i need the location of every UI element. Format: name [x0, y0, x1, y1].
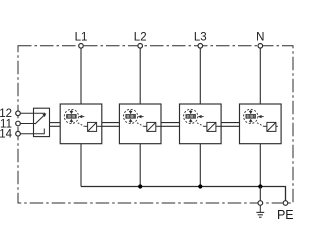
junction L3/PE bus: [198, 184, 202, 188]
trigger flag module F1: [79, 115, 85, 118]
wire module F3 to PE bus: [199, 144, 201, 187]
terminal PE: [283, 201, 288, 206]
trigger flag module F2: [138, 115, 144, 118]
remote signalling changeover contact box: [34, 108, 50, 136]
wire module F4 to PE bus: [259, 144, 261, 187]
terminal N: [258, 44, 263, 49]
varistor (boxed slash) module F4: [264, 122, 278, 131]
ground symbol: [256, 205, 264, 217]
junction L2/PE bus: [138, 184, 142, 188]
svg-text:N: N: [256, 31, 264, 43]
svg-text:L1: L1: [75, 31, 88, 43]
wire L3 terminal to module: [199, 48, 201, 104]
wire L2 terminal to module: [139, 48, 141, 104]
switch arm (changeover contact): [35, 115, 45, 124]
wire L1 terminal to module: [80, 48, 82, 104]
terminal L3: [198, 44, 203, 49]
wire bus to earth terminal: [259, 187, 261, 201]
wire terminal 12 to NC contact: [20, 113, 44, 116]
SPD module F4 (N) box: [240, 104, 282, 144]
wire terminal 11 to common: [20, 123, 35, 125]
coupling double line module 3 to module 4: [221, 123, 239, 127]
varistor (boxed slash) module F2: [143, 122, 161, 131]
SPD module F1 (L1) box: [60, 104, 102, 144]
terminal L1: [79, 44, 84, 49]
trigger dashed link module F3: [197, 123, 203, 127]
PE bus wire: [81, 187, 286, 201]
svg-text:14: 14: [0, 129, 13, 141]
terminal 12: [16, 111, 21, 116]
enclosure (dash-dot device outline): [18, 46, 293, 203]
SPD module F3 (L3) box: [180, 104, 222, 144]
trigger dashed link module F1: [78, 123, 84, 127]
spark gap (dashed circle) module F3: [184, 109, 198, 123]
trigger dashed link module F2: [137, 123, 143, 127]
coupling double line module 1 to module 2: [102, 123, 120, 127]
trigger flag module F3: [198, 115, 204, 118]
coupling double line module 2 to module 3: [161, 123, 180, 127]
wire module F1 to PE bus: [80, 144, 82, 187]
trigger flag module F4: [258, 115, 264, 118]
earth terminal: [258, 201, 263, 206]
svg-text:PE: PE: [277, 208, 294, 222]
varistor (boxed slash) module F3: [204, 122, 222, 131]
coupling double line contact box to module 1: [50, 123, 61, 127]
wire terminal 14 to NO contact: [20, 129, 44, 134]
svg-text:L3: L3: [194, 31, 207, 43]
SPD module F2 (L2) box: [119, 104, 161, 144]
junction N/PE bus: [258, 184, 262, 188]
spark gap (dashed circle) module F2: [124, 109, 138, 123]
svg-text:L2: L2: [134, 31, 147, 43]
trigger dashed link module F4: [257, 123, 263, 127]
wire module F2 to PE bus: [139, 144, 141, 187]
varistor (boxed slash) module F1: [84, 122, 102, 131]
spark gap (dashed circle) module F1: [64, 109, 78, 123]
wire N terminal to module: [259, 48, 261, 104]
terminal 14: [16, 131, 21, 136]
terminal L2: [138, 44, 143, 49]
terminal 11: [16, 121, 21, 126]
spark gap (dashed circle) module F4: [244, 109, 258, 123]
